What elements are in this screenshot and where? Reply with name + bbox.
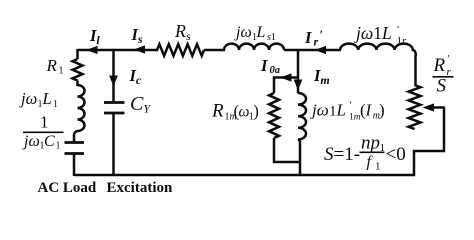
inductor L'_1r <box>340 44 416 56</box>
svg-text:Rs: Rs <box>174 21 191 43</box>
svg-text:I: I <box>304 28 312 47</box>
svg-text:Ic: Ic <box>129 66 142 87</box>
label j omega1 L_s1 <box>234 24 276 43</box>
label j omega1 L'_1m (I_m) <box>310 100 385 123</box>
label j omega1 L1 <box>19 89 58 110</box>
arrow I_c <box>109 76 118 87</box>
arrow I_l <box>86 46 98 54</box>
arrow wiper into R'_r/S <box>423 103 445 111</box>
svg-text:I: I <box>260 56 268 75</box>
wire right drop to bottom <box>414 107 444 177</box>
svg-text:1: 1 <box>40 113 49 132</box>
label fraction R'_r over S <box>433 53 454 97</box>
wire left branch top stub <box>76 49 79 59</box>
svg-text:1: 1 <box>56 141 61 152</box>
resistor R_s <box>157 44 204 56</box>
svg-text:r: r <box>314 35 319 49</box>
resistor R_1m <box>269 93 279 138</box>
wire bottom horizontal <box>74 174 415 177</box>
svg-text:np: np <box>361 132 380 153</box>
svg-text:jω: jω <box>234 24 252 41</box>
svg-text:jω: jω <box>19 89 37 108</box>
svg-text:CY: CY <box>130 93 151 116</box>
label fraction 1 over j omega1 C1 <box>22 113 64 152</box>
svg-text:L: L <box>256 24 266 41</box>
arrow I_m <box>294 80 303 91</box>
svg-text:1: 1 <box>53 99 58 110</box>
svg-text:S=1-: S=1- <box>324 144 360 165</box>
svg-text:C: C <box>44 133 55 150</box>
label j omega1 L'_1r <box>354 23 407 47</box>
wire top horizontal left segment <box>78 49 159 52</box>
svg-text:jω: jω <box>310 101 329 120</box>
capacitor C_Y <box>104 103 125 177</box>
label I_0a <box>260 56 280 76</box>
wire L'_1m lead to bottom <box>299 141 302 176</box>
label I_r' <box>304 27 323 49</box>
svg-text:I: I <box>365 101 373 120</box>
svg-text:R: R <box>433 55 446 76</box>
svg-text:L: L <box>42 89 52 108</box>
label equation S = 1 - np1/f1 < 0 <box>324 132 406 172</box>
resistor R1 <box>73 59 83 81</box>
svg-text:′: ′ <box>350 100 352 112</box>
label R1 <box>46 56 64 77</box>
wire excitation branch upper <box>112 50 115 103</box>
svg-text:AC Load: AC Load <box>38 180 97 196</box>
wire right branch upper <box>414 55 417 86</box>
svg-text:<0: <0 <box>386 144 406 165</box>
arrow I_s <box>134 45 146 53</box>
wire R_1m bottom step <box>274 138 300 162</box>
inductor L_s1 <box>224 44 284 50</box>
label R_1m(omega_1) <box>211 101 259 123</box>
svg-text:′: ′ <box>448 53 450 65</box>
svg-text:Excitation: Excitation <box>107 180 173 196</box>
svg-text:1: 1 <box>329 104 337 120</box>
inductor L1 <box>74 81 85 136</box>
arrow I_0a <box>280 73 292 81</box>
resistor R'_r/S variable <box>409 85 421 129</box>
svg-text:Is: Is <box>131 25 143 46</box>
svg-text:): ) <box>379 101 385 120</box>
svg-text:1: 1 <box>375 161 381 173</box>
wire magnetizing branch vertical <box>297 50 300 93</box>
svg-text:R: R <box>46 56 58 75</box>
svg-text:Im: Im <box>313 66 330 87</box>
arrow I_r' <box>315 46 327 54</box>
svg-text:jω: jω <box>22 133 40 150</box>
svg-text:1r: 1r <box>397 35 408 47</box>
svg-text:′: ′ <box>320 27 324 42</box>
capacitor C1 <box>65 135 85 176</box>
svg-text:1: 1 <box>59 66 64 77</box>
svg-text:f: f <box>367 154 374 171</box>
svg-text:jω1L: jω1L <box>354 23 392 43</box>
svg-text:1m: 1m <box>349 113 361 123</box>
svg-text:R: R <box>211 101 224 122</box>
svg-text:S: S <box>437 76 447 97</box>
inductor L'_1m <box>298 93 306 142</box>
wire segment R_s to L_s1 <box>204 49 225 52</box>
svg-text:L: L <box>336 101 346 120</box>
svg-text:Il: Il <box>89 26 100 47</box>
svg-text:s1: s1 <box>267 32 276 43</box>
svg-text:0a: 0a <box>270 65 281 76</box>
svg-text:): ) <box>253 102 259 121</box>
wire branch to R_1m <box>274 78 298 94</box>
wire segment L_s1 to node and to L_1r <box>284 49 341 52</box>
